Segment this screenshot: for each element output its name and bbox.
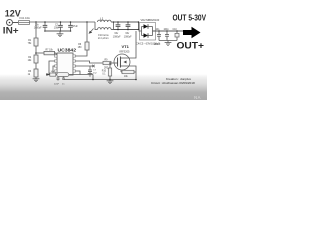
label L1 turns <box>98 34 109 40</box>
output cap bottom wire <box>154 41 178 46</box>
diode VD2a <box>139 24 153 35</box>
terminal IN+ <box>7 20 13 26</box>
svg-text:1000uF: 1000uF <box>124 36 132 38</box>
svg-text:OUT+: OUT+ <box>177 41 205 51</box>
svg-text:VD2 MBR20100: VD2 MBR20100 <box>141 18 160 22</box>
wire pin3 down <box>53 66 55 73</box>
ground output <box>165 41 172 46</box>
watermark <box>194 95 201 100</box>
svg-text:VT1: VT1 <box>122 44 130 49</box>
svg-text:R10: R10 <box>102 70 107 72</box>
node Vcc feed <box>86 21 88 23</box>
capacitor C12 electrolytic <box>173 29 180 41</box>
label OUT+ <box>177 41 205 51</box>
caption line 2 <box>151 81 195 85</box>
wire drain up <box>128 31 137 58</box>
wire source down <box>128 66 137 80</box>
inductor L1 bottom winding <box>98 28 114 30</box>
capacitor C1 <box>34 21 48 32</box>
svg-text:IRF3205: IRF3205 <box>120 50 131 54</box>
box C timing <box>50 71 56 76</box>
wire Vcc to pin7 <box>76 50 88 56</box>
wire under-row to ground join <box>64 75 137 81</box>
IC U1 UC3842 <box>55 48 77 76</box>
diode VD2b <box>142 27 153 38</box>
svg-text:1000uF: 1000uF <box>34 27 42 29</box>
svg-text:R7 10k: R7 10k <box>46 50 54 52</box>
arrow out <box>183 27 201 38</box>
resistor R3 <box>28 69 38 77</box>
resistor R9 gate <box>103 59 111 69</box>
svg-text:FU1 10A: FU1 10A <box>20 16 31 20</box>
wire to pin1 <box>36 52 44 54</box>
capacitor C3 <box>68 21 78 32</box>
resistor R11 <box>121 70 136 78</box>
ground input caps <box>57 31 64 37</box>
label IN+ <box>3 25 19 35</box>
output rail <box>153 30 184 32</box>
svg-text:47uF: 47uF <box>73 26 79 28</box>
resistor R7 <box>44 50 56 56</box>
capacitor C2 <box>54 21 63 32</box>
transistor VT1 <box>114 44 130 70</box>
under-IC row wire <box>46 73 93 76</box>
svg-text:OUT 5-30V: OUT 5-30V <box>173 13 207 22</box>
resistor R1 <box>28 38 38 46</box>
diode VD2 box <box>136 18 160 46</box>
wire Vcc vertical <box>87 22 94 42</box>
capacitor C4 small <box>54 77 60 86</box>
wire pin2 down <box>48 61 54 75</box>
wire divider low <box>35 63 37 69</box>
svg-text:100n: 100n <box>54 27 60 29</box>
inductor L1 top winding <box>98 17 114 22</box>
wire terminal to fuse <box>13 22 19 24</box>
fuse FU1 <box>19 16 31 24</box>
resistor R6 <box>78 42 89 50</box>
label 12V <box>5 8 22 18</box>
wire gate <box>111 62 114 64</box>
wire top rail <box>30 21 96 23</box>
capacitor C9 snubber <box>124 21 132 38</box>
svg-text:NA: NA <box>194 95 201 100</box>
svg-text:2x 1,2mm: 2x 1,2mm <box>98 37 109 40</box>
wire cap bottom rail <box>45 30 71 32</box>
resistor R5 <box>57 73 69 77</box>
capacitor C7 <box>88 68 98 76</box>
resistor R2 <box>28 55 38 63</box>
wire winding join <box>113 21 115 29</box>
label OUT 5-30V <box>173 13 207 22</box>
svg-text:100uF: 100uF <box>154 43 161 46</box>
wire pin8 to C7 <box>76 71 81 75</box>
svg-text:22uF: 22uF <box>54 83 60 85</box>
capacitor C11 <box>164 29 170 41</box>
capacitor C5 small <box>62 77 65 86</box>
svg-text:IN+: IN+ <box>3 25 19 35</box>
wire divider mid <box>35 46 37 55</box>
capacitor C8 snubber <box>113 21 121 38</box>
divider top wire <box>35 22 37 38</box>
ground bottom <box>107 80 114 84</box>
wire pin7 stub <box>76 65 95 68</box>
ground divider <box>33 77 40 82</box>
node top rail at divider <box>35 21 37 23</box>
svg-text:UC3842: UC3842 <box>58 48 77 53</box>
svg-text:1000uF: 1000uF <box>113 36 121 38</box>
caption line 1 <box>166 77 191 81</box>
svg-text:Circuit : Abolhassan 03/09/201: Circuit : Abolhassan 03/09/2018 <box>151 81 195 85</box>
wire pin6 to gate <box>76 61 104 63</box>
svg-text:C10: C10 <box>173 29 178 31</box>
resistor R10 sense vertical <box>102 62 112 80</box>
wire drain rails <box>114 21 140 30</box>
svg-text:100n: 100n <box>164 29 170 31</box>
inductor L1 split <box>95 22 98 30</box>
capacitor C10 <box>156 29 162 41</box>
title bar <box>0 74 207 100</box>
